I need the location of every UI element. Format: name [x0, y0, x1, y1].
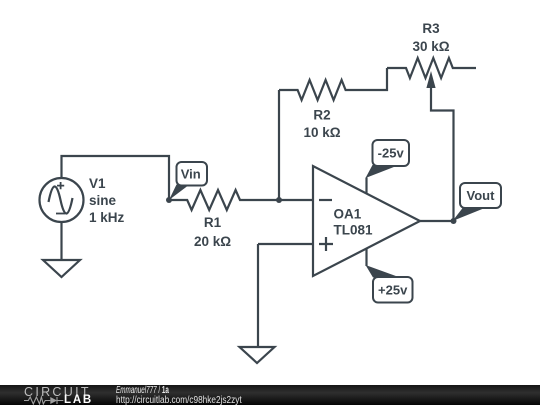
svg-text:R3: R3	[422, 21, 440, 36]
svg-text:R2: R2	[313, 108, 330, 123]
svg-text:TL081: TL081	[334, 223, 374, 238]
svg-text:OA1: OA1	[334, 207, 362, 222]
svg-text:+25v: +25v	[378, 282, 408, 297]
svg-text:20 kΩ: 20 kΩ	[194, 234, 231, 249]
svg-text:Vin: Vin	[181, 166, 201, 181]
svg-text:R1: R1	[204, 215, 222, 230]
svg-text:10 kΩ: 10 kΩ	[303, 125, 340, 140]
svg-text:sine: sine	[89, 193, 117, 208]
svg-text:30 kΩ: 30 kΩ	[412, 39, 449, 54]
svg-text:-25v: -25v	[378, 146, 405, 161]
svg-text:Vout: Vout	[467, 188, 496, 203]
svg-text:V1: V1	[89, 176, 106, 191]
svg-text:1 kHz: 1 kHz	[89, 210, 125, 225]
